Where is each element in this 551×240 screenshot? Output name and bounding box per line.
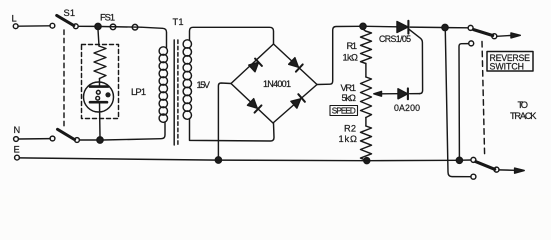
svg-text:T1: T1 — [173, 17, 184, 27]
bridge diode D3 (upper-right) — [289, 58, 299, 67]
reverse switch top pole contact — [468, 25, 473, 30]
wire node to top pole contact — [448, 27, 468, 29]
svg-text:N: N — [14, 125, 21, 135]
reverse switch bottom pole contact — [471, 157, 476, 162]
reverse switch top pole moving contact — [492, 34, 497, 39]
neon lamp LP1 envelope — [84, 82, 114, 112]
switch S1 pole A blade — [57, 15, 74, 25]
crossover wire A (top node down to bottom alternate contact) — [445, 31, 471, 177]
terminal N — [14, 137, 19, 142]
reverse switch top pole alternate contact — [469, 41, 474, 46]
switch S1 pole B right contact — [75, 138, 80, 143]
bridge diode D2 (upper-left) — [249, 62, 259, 71]
wire to lamp junction — [79, 139, 97, 141]
junction dot reverse switch top — [442, 24, 448, 30]
svg-text:1kΩ: 1kΩ — [343, 52, 359, 62]
wire rail to diode CRS1/05 — [366, 25, 397, 28]
wire secondary top to bridge top corner — [190, 27, 274, 44]
lamp LP1 gas dot — [105, 92, 110, 97]
transformer T1 secondary winding — [183, 40, 191, 120]
svg-text:SPEED: SPEED — [332, 107, 356, 116]
svg-text:E: E — [14, 145, 20, 155]
svg-text:1kΩ: 1kΩ — [339, 134, 358, 144]
junction dot R2 bottom — [364, 158, 370, 164]
reverse switch bottom pole blade — [476, 162, 495, 170]
reverse switch gang dashed line — [482, 42, 485, 156]
wire bridge right corner to top rail — [317, 26, 360, 84]
wire L to S1 — [18, 25, 50, 27]
svg-text:L: L — [12, 14, 17, 24]
switch S1 pole A right contact — [73, 24, 78, 29]
wire junction to T1 primary bottom — [103, 122, 165, 140]
SPEED label box — [330, 106, 358, 116]
svg-text:LP1: LP1 — [131, 87, 146, 97]
switch S1 gang dashed line — [63, 30, 65, 126]
svg-text:SWITCH: SWITCH — [490, 61, 525, 71]
reverse switch bottom pole alternate contact — [471, 174, 476, 179]
junction dot lamp branch — [95, 23, 101, 29]
switch S1 pole B blade — [58, 129, 75, 139]
lamp LP1 bottom electrode — [90, 101, 107, 104]
wire N to S1 pole B — [18, 138, 50, 140]
svg-text:1N4001: 1N4001 — [263, 79, 291, 89]
transformer T1 core — [173, 40, 175, 145]
reverse switch bottom pole moving contact — [494, 167, 499, 172]
potentiometer VR1 — [361, 77, 372, 118]
svg-text:S1: S1 — [64, 8, 76, 18]
junction dot N line — [97, 137, 103, 143]
svg-text:TO: TO — [518, 100, 529, 110]
wire CRS1/05 to reverse switch node — [410, 26, 442, 28]
svg-text:R1: R1 — [347, 41, 358, 51]
lamp LP1 inner circles — [96, 90, 100, 94]
junction dot reverse switch bottom — [456, 157, 462, 163]
resistor R1 — [361, 29, 372, 63]
reverse switch top pole blade — [474, 30, 493, 36]
wire rail to bottom pole contact — [463, 159, 471, 161]
transformer T1 primary winding — [159, 47, 167, 123]
wire secondary bottom to bridge bottom corner — [190, 119, 275, 141]
wire VR1 to R2 — [365, 118, 367, 127]
bridge rectifier arms — [231, 44, 317, 123]
svg-text:R2: R2 — [344, 124, 356, 134]
wire CRS1/05 branch down to 0A200 — [410, 30, 423, 94]
diode 0A200 wire to vertical — [410, 93, 420, 95]
svg-text:15V: 15V — [197, 80, 211, 90]
fuse FS1 — [101, 26, 141, 29]
switch S1 pole B left contact — [50, 136, 55, 141]
output arrow top — [497, 34, 512, 37]
REVERSE SWITCH label box — [487, 52, 533, 72]
svg-text:FS1: FS1 — [100, 12, 115, 22]
junction dot bottom rail left — [215, 157, 221, 163]
wire resistor to lamp — [99, 79, 101, 86]
bridge diode D4 (lower-right) — [291, 99, 301, 108]
bottom rail wire — [19, 158, 456, 161]
junction dot R1 top — [360, 23, 366, 29]
resistor R2 — [361, 126, 372, 161]
VR1 wiper arrow — [374, 91, 382, 96]
lamp LP1 top electrode — [90, 85, 108, 88]
wire FS1 to T1 primary — [141, 27, 167, 47]
lamp unit dashed enclosure — [82, 45, 119, 119]
wire node to ballast resistor — [98, 30, 99, 47]
diode 0A200 — [398, 89, 408, 99]
wire lamp to N junction — [99, 102, 102, 137]
svg-text:VR1: VR1 — [341, 83, 357, 93]
wire bridge left corner to bottom rail — [218, 83, 231, 157]
wire R1 to VR1 — [365, 64, 367, 78]
wire S1 to node — [78, 25, 95, 27]
switch S1 pole A left contact — [50, 23, 55, 28]
diode CRS1/05 — [397, 22, 408, 33]
svg-text:TRACK: TRACK — [510, 111, 537, 121]
crossover wire B (alt top contact down to bottom rail) — [459, 44, 469, 158]
svg-text:0A200: 0A200 — [394, 103, 420, 113]
ballast resistor (lamp) — [94, 46, 106, 79]
svg-text:5kΩ: 5kΩ — [342, 93, 357, 103]
terminal E — [15, 155, 20, 160]
svg-text:CRS1/05: CRS1/05 — [379, 34, 411, 44]
output arrow bottom — [499, 169, 515, 171]
terminal L — [13, 24, 18, 29]
bridge diode D1 (lower-left) — [248, 99, 258, 109]
